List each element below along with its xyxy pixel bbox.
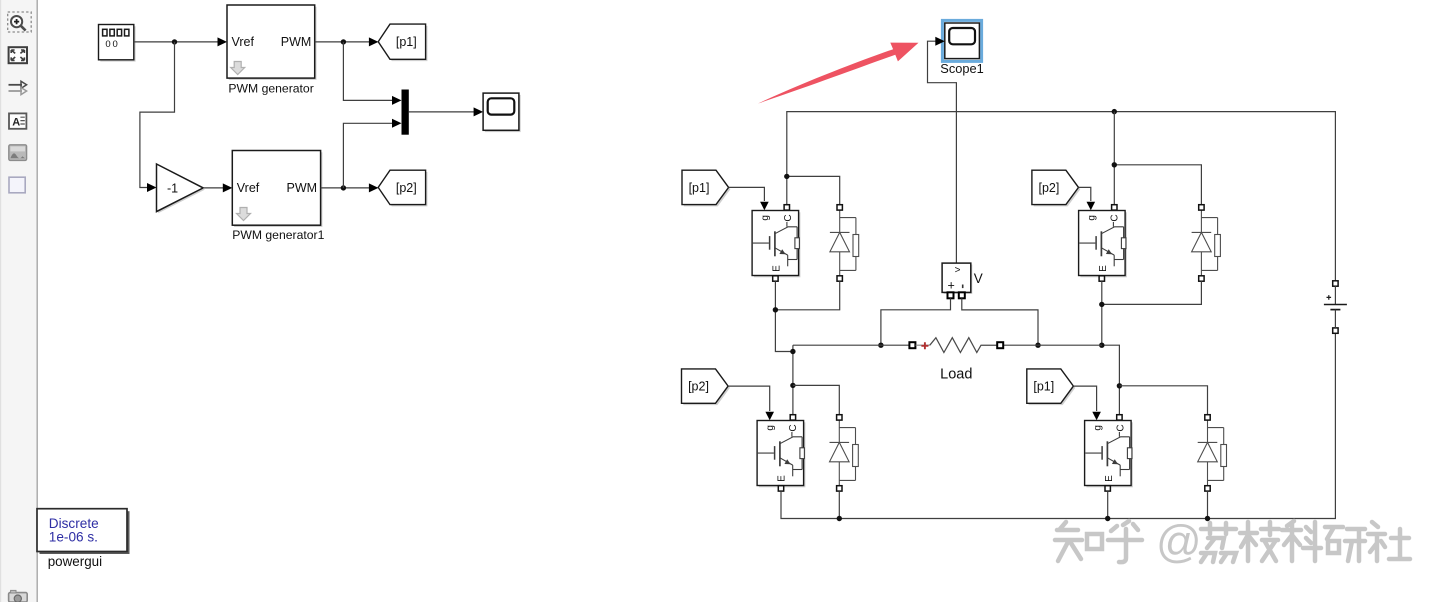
toolbar image icon bbox=[9, 145, 27, 161]
junction load-right V tap bbox=[1035, 343, 1040, 348]
svg-text:0: 0 bbox=[105, 39, 110, 50]
Scope1 block with selection frame bbox=[942, 20, 981, 61]
wire mux to scope bbox=[409, 107, 483, 116]
wire from [p1] to IGBT1 gate bbox=[729, 187, 769, 210]
junction right leg b bbox=[1117, 383, 1122, 388]
svg-text:1e-06 s.: 1e-06 s. bbox=[49, 530, 98, 545]
port V minus bbox=[959, 292, 965, 298]
diode D1 with snubber (top-left) bbox=[830, 205, 859, 281]
svg-text:PWM: PWM bbox=[281, 35, 312, 49]
svg-text:V: V bbox=[974, 271, 983, 286]
wire gain to PWM generator1 bbox=[203, 183, 232, 192]
wire branch to mux input 1 bbox=[343, 42, 401, 105]
gain block -1 bbox=[157, 164, 205, 213]
wire from [p1] to IGBT4 gate bbox=[1073, 386, 1101, 420]
wire branch to diode4 top bbox=[1119, 386, 1207, 415]
junction load-left V tap bbox=[878, 343, 883, 348]
IGBT1 block (top-left) bbox=[752, 211, 800, 278]
junction top bus right branch bbox=[1112, 109, 1117, 114]
wire from [p2] to IGBT3 gate bbox=[728, 386, 774, 420]
junction emitter node 1 bbox=[773, 307, 778, 312]
junction collector node 1 bbox=[784, 174, 789, 179]
PWM generator1 block bbox=[232, 151, 322, 228]
toolbar zoom-select icon bbox=[8, 12, 32, 32]
junction on PWM1 output bbox=[341, 185, 346, 190]
red annotation arrow bbox=[758, 43, 919, 104]
junction bus IGBT4 emitter bbox=[1105, 516, 1110, 521]
wire bottom bus bbox=[781, 334, 1335, 519]
port IGBT3 E bbox=[778, 486, 783, 491]
repeating-sequence source block bbox=[99, 25, 136, 62]
svg-text:Load: Load bbox=[940, 366, 972, 382]
wire source to PWM generator bbox=[134, 37, 227, 46]
diode D3 with snubber (bottom-left) bbox=[830, 415, 859, 491]
svg-text:A: A bbox=[12, 116, 20, 128]
from tag [p2] bottom-left bbox=[682, 369, 730, 405]
port IGBT4 C bbox=[1117, 415, 1122, 420]
svg-text:[p2]: [p2] bbox=[1038, 181, 1059, 195]
port IGBT2 C bbox=[1112, 205, 1117, 210]
wire from [p2] to IGBT2 gate bbox=[1079, 187, 1096, 210]
svg-text:Vref: Vref bbox=[232, 35, 255, 49]
wire branch down to gain bbox=[140, 42, 175, 188]
diode D4 with snubber (bottom-right) bbox=[1198, 415, 1227, 491]
svg-text:+: + bbox=[948, 278, 955, 292]
svg-text:0: 0 bbox=[113, 39, 118, 50]
from tag [p1] top-left bbox=[682, 170, 730, 206]
wire V minus to load-right node bbox=[962, 298, 1038, 345]
junction emitter node 2 bbox=[1099, 302, 1104, 307]
wire IGBT1 collector branch to diode1 bbox=[787, 176, 840, 204]
IGBT3 block (bottom-left) bbox=[757, 421, 805, 488]
port V plus bbox=[948, 292, 954, 298]
svg-text:powergui: powergui bbox=[48, 554, 102, 569]
wire load line left bbox=[793, 344, 910, 346]
powergui block bbox=[37, 509, 130, 554]
svg-text:PWM: PWM bbox=[287, 181, 318, 195]
wire voltage measurement to Scope1 bbox=[928, 37, 957, 263]
toolbar area icon bbox=[9, 177, 25, 193]
IGBT4 block (bottom-right) bbox=[1085, 421, 1133, 488]
wire collector branch to diode2 bbox=[1114, 165, 1201, 205]
junction bus diode3 bbox=[837, 516, 842, 521]
from tag [p1] bottom-right bbox=[1027, 369, 1075, 405]
IGBT2 block (top-right) bbox=[1079, 211, 1127, 278]
wire branch to mux input 2 bbox=[343, 119, 401, 188]
svg-text:PWM generator1: PWM generator1 bbox=[232, 228, 324, 242]
toolbar sidebar background bbox=[0, 0, 37, 602]
DC voltage source bbox=[1324, 281, 1347, 334]
svg-text:@: @ bbox=[1156, 516, 1202, 567]
wire IGBT1 emitter to diode bottom and down bbox=[775, 281, 839, 351]
wire left leg load node bbox=[792, 345, 794, 414]
mux bbox=[402, 90, 409, 135]
junction on PWM output bbox=[341, 39, 346, 44]
svg-text:>: > bbox=[955, 265, 961, 276]
diode D2 with snubber (top-right) bbox=[1192, 205, 1221, 281]
junction right leg load bbox=[1099, 343, 1104, 348]
toolbar signal-arrows icon bbox=[9, 81, 27, 94]
goto tag [p1] bbox=[378, 24, 427, 61]
wire branch to diode3 top bbox=[793, 385, 839, 414]
junction bus diode4 bbox=[1205, 516, 1210, 521]
svg-text:Vref: Vref bbox=[237, 181, 260, 195]
junction left leg b bbox=[790, 383, 795, 388]
voltage measurement block V bbox=[942, 263, 972, 294]
svg-text:-1: -1 bbox=[167, 181, 178, 195]
port IGBT4 E bbox=[1105, 486, 1110, 491]
node branch junction bbox=[172, 39, 177, 44]
junction left leg a bbox=[790, 349, 795, 354]
svg-text:[p1]: [p1] bbox=[1033, 380, 1054, 394]
scope block bbox=[483, 93, 521, 132]
port IGBT2 E bbox=[1099, 276, 1104, 281]
svg-text:Scope1: Scope1 bbox=[940, 61, 983, 76]
from tag [p2] top-right bbox=[1032, 170, 1080, 206]
wire PWM1 output to goto [p2] bbox=[321, 183, 379, 192]
port IGBT1 E bbox=[773, 276, 778, 281]
port IGBT3 C bbox=[790, 415, 795, 420]
wire right leg load node bbox=[1102, 345, 1119, 414]
toolbar camera icon (clipped at bottom) bbox=[9, 590, 28, 602]
port IGBT1 C bbox=[784, 205, 789, 210]
svg-text:PWM generator: PWM generator bbox=[228, 81, 313, 95]
junction collector node 2 bbox=[1112, 162, 1117, 167]
svg-text:[p2]: [p2] bbox=[396, 181, 417, 195]
wire load line right bbox=[1003, 344, 1102, 346]
svg-text:[p2]: [p2] bbox=[688, 380, 709, 394]
wire top bus bbox=[787, 112, 1336, 281]
wire PWM output to goto [p1] bbox=[315, 37, 379, 46]
wire IGBT2 emitter to diode2 bottom and down bbox=[1102, 281, 1202, 345]
PWM generator block bbox=[227, 5, 317, 80]
toolbar annotation icon bbox=[9, 113, 26, 128]
svg-text:[p1]: [p1] bbox=[689, 181, 710, 195]
load resistor block bbox=[909, 338, 1003, 353]
toolbar fit-to-view icon bbox=[9, 47, 27, 63]
wire V plus to load-left node bbox=[881, 298, 951, 345]
wire IGBT2 collector vertical bbox=[1113, 112, 1115, 205]
svg-text:[p1]: [p1] bbox=[396, 35, 417, 49]
watermark zhihu text bbox=[1055, 521, 1142, 562]
goto tag [p2] bbox=[378, 170, 427, 206]
